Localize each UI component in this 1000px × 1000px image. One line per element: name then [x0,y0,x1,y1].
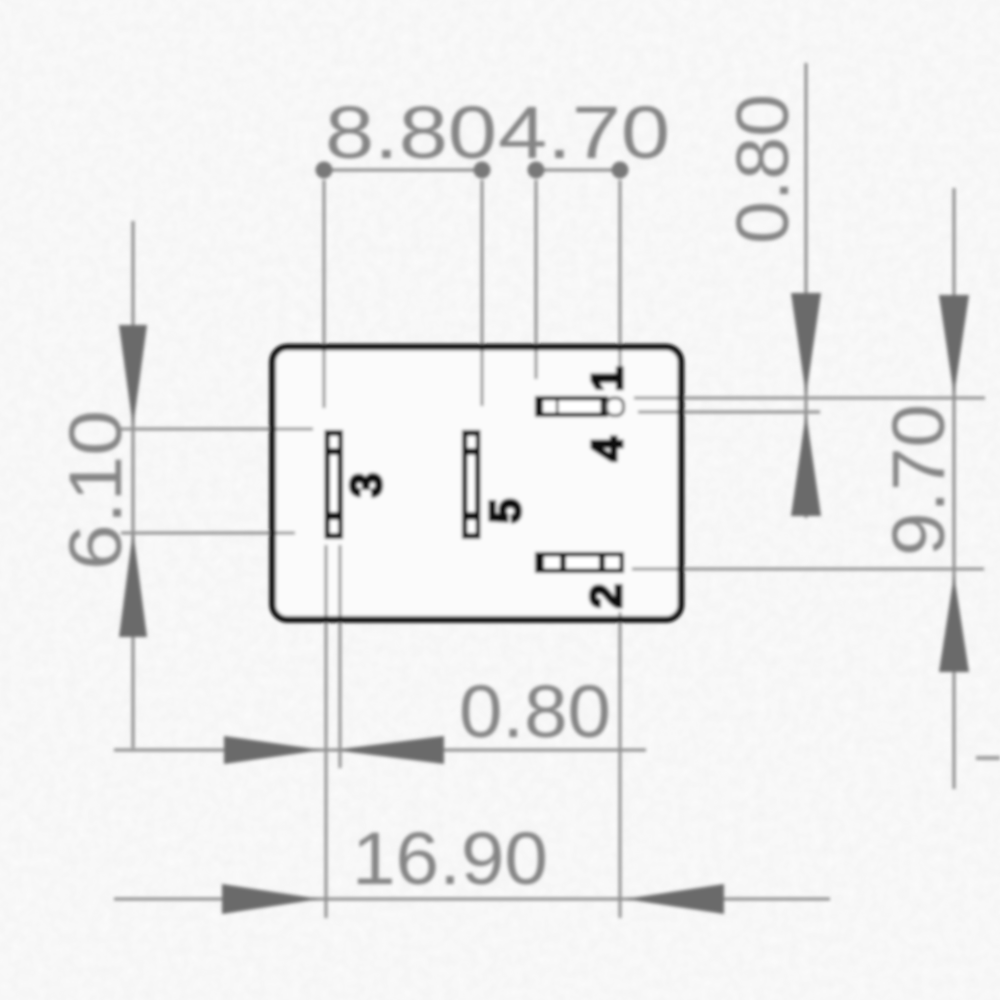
pin3 right edge extension line down [339,545,342,768]
0.80 bottom dimension line [114,749,646,752]
svg-text:9.70: 9.70 [877,404,960,556]
9.70 arrow down [939,295,969,395]
6.10 arrow up [119,531,147,637]
extension line from C down [535,180,538,379]
0.80 bottom arrow right [224,736,322,764]
pin3 left edge extension line down [325,545,328,918]
svg-text:5: 5 [481,499,530,523]
svg-text:4.70: 4.70 [498,91,670,174]
pin 5 slot [462,430,481,539]
dot terminator C [528,162,545,179]
extension line from B down [481,180,484,406]
pin 3 slot [325,430,344,539]
extension line from A down [323,180,326,408]
svg-text:8.80: 8.80 [325,91,497,174]
pin 1 slot [535,396,624,417]
6.10 lower extension line [121,532,295,535]
16.90 dimension line [114,898,830,901]
dot terminator D [612,162,629,179]
svg-text:4: 4 [583,436,632,461]
pin1 right end extension line down [619,612,622,918]
extension line from D down [619,180,622,380]
pin1 top edge extension line [634,397,985,400]
6.10 arrow down [119,325,147,427]
stray dash right edge [976,756,1000,760]
svg-text:1: 1 [583,367,632,391]
0.80 right arrow up [791,413,821,516]
pin2 edge extension line [632,568,984,571]
6.10 dimension line [132,221,135,748]
pin 2 slot [535,552,624,573]
9.70 arrow up [939,575,969,672]
dimension line 8.80 [324,169,482,172]
16.90 arrow right [222,884,320,914]
0.80 right arrow down [791,293,821,395]
svg-text:0.80: 0.80 [721,94,804,244]
6.10 upper extension line [121,428,313,431]
svg-text:6.10: 6.10 [54,410,137,570]
relay body fill [273,347,682,620]
0.80 right dimension line [805,63,808,518]
dot terminator A [316,162,333,179]
9.70 dimension line [953,188,956,789]
svg-text:3: 3 [342,473,391,497]
16.90 arrow left [625,884,724,914]
svg-text:0.80: 0.80 [459,670,611,753]
pin1 bottom edge extension line [638,411,820,414]
dot terminator B [474,162,491,179]
0.80 bottom arrow left [334,736,444,764]
svg-text:2: 2 [582,584,631,608]
svg-text:16.90: 16.90 [352,817,548,900]
dimension line 4.70 [536,169,620,172]
relay body outline [273,347,682,620]
